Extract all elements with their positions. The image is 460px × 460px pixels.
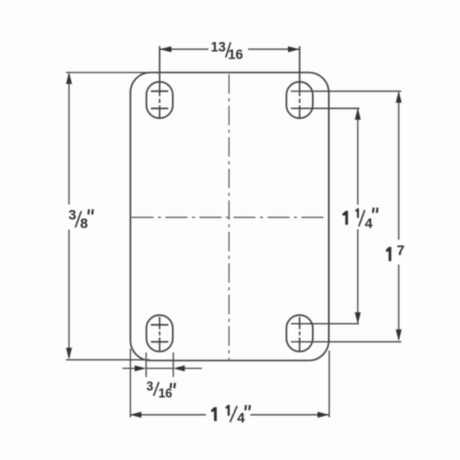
svg-text:7: 7: [397, 242, 405, 258]
svg-text:3: 3: [146, 380, 153, 394]
svg-text:4: 4: [365, 215, 373, 231]
svg-text:16: 16: [158, 387, 172, 401]
svg-text:13: 13: [211, 39, 227, 54]
svg-text:8: 8: [80, 215, 88, 231]
svg-text:3: 3: [69, 207, 77, 223]
svg-text:16: 16: [228, 47, 244, 62]
svg-text:4: 4: [237, 410, 245, 426]
